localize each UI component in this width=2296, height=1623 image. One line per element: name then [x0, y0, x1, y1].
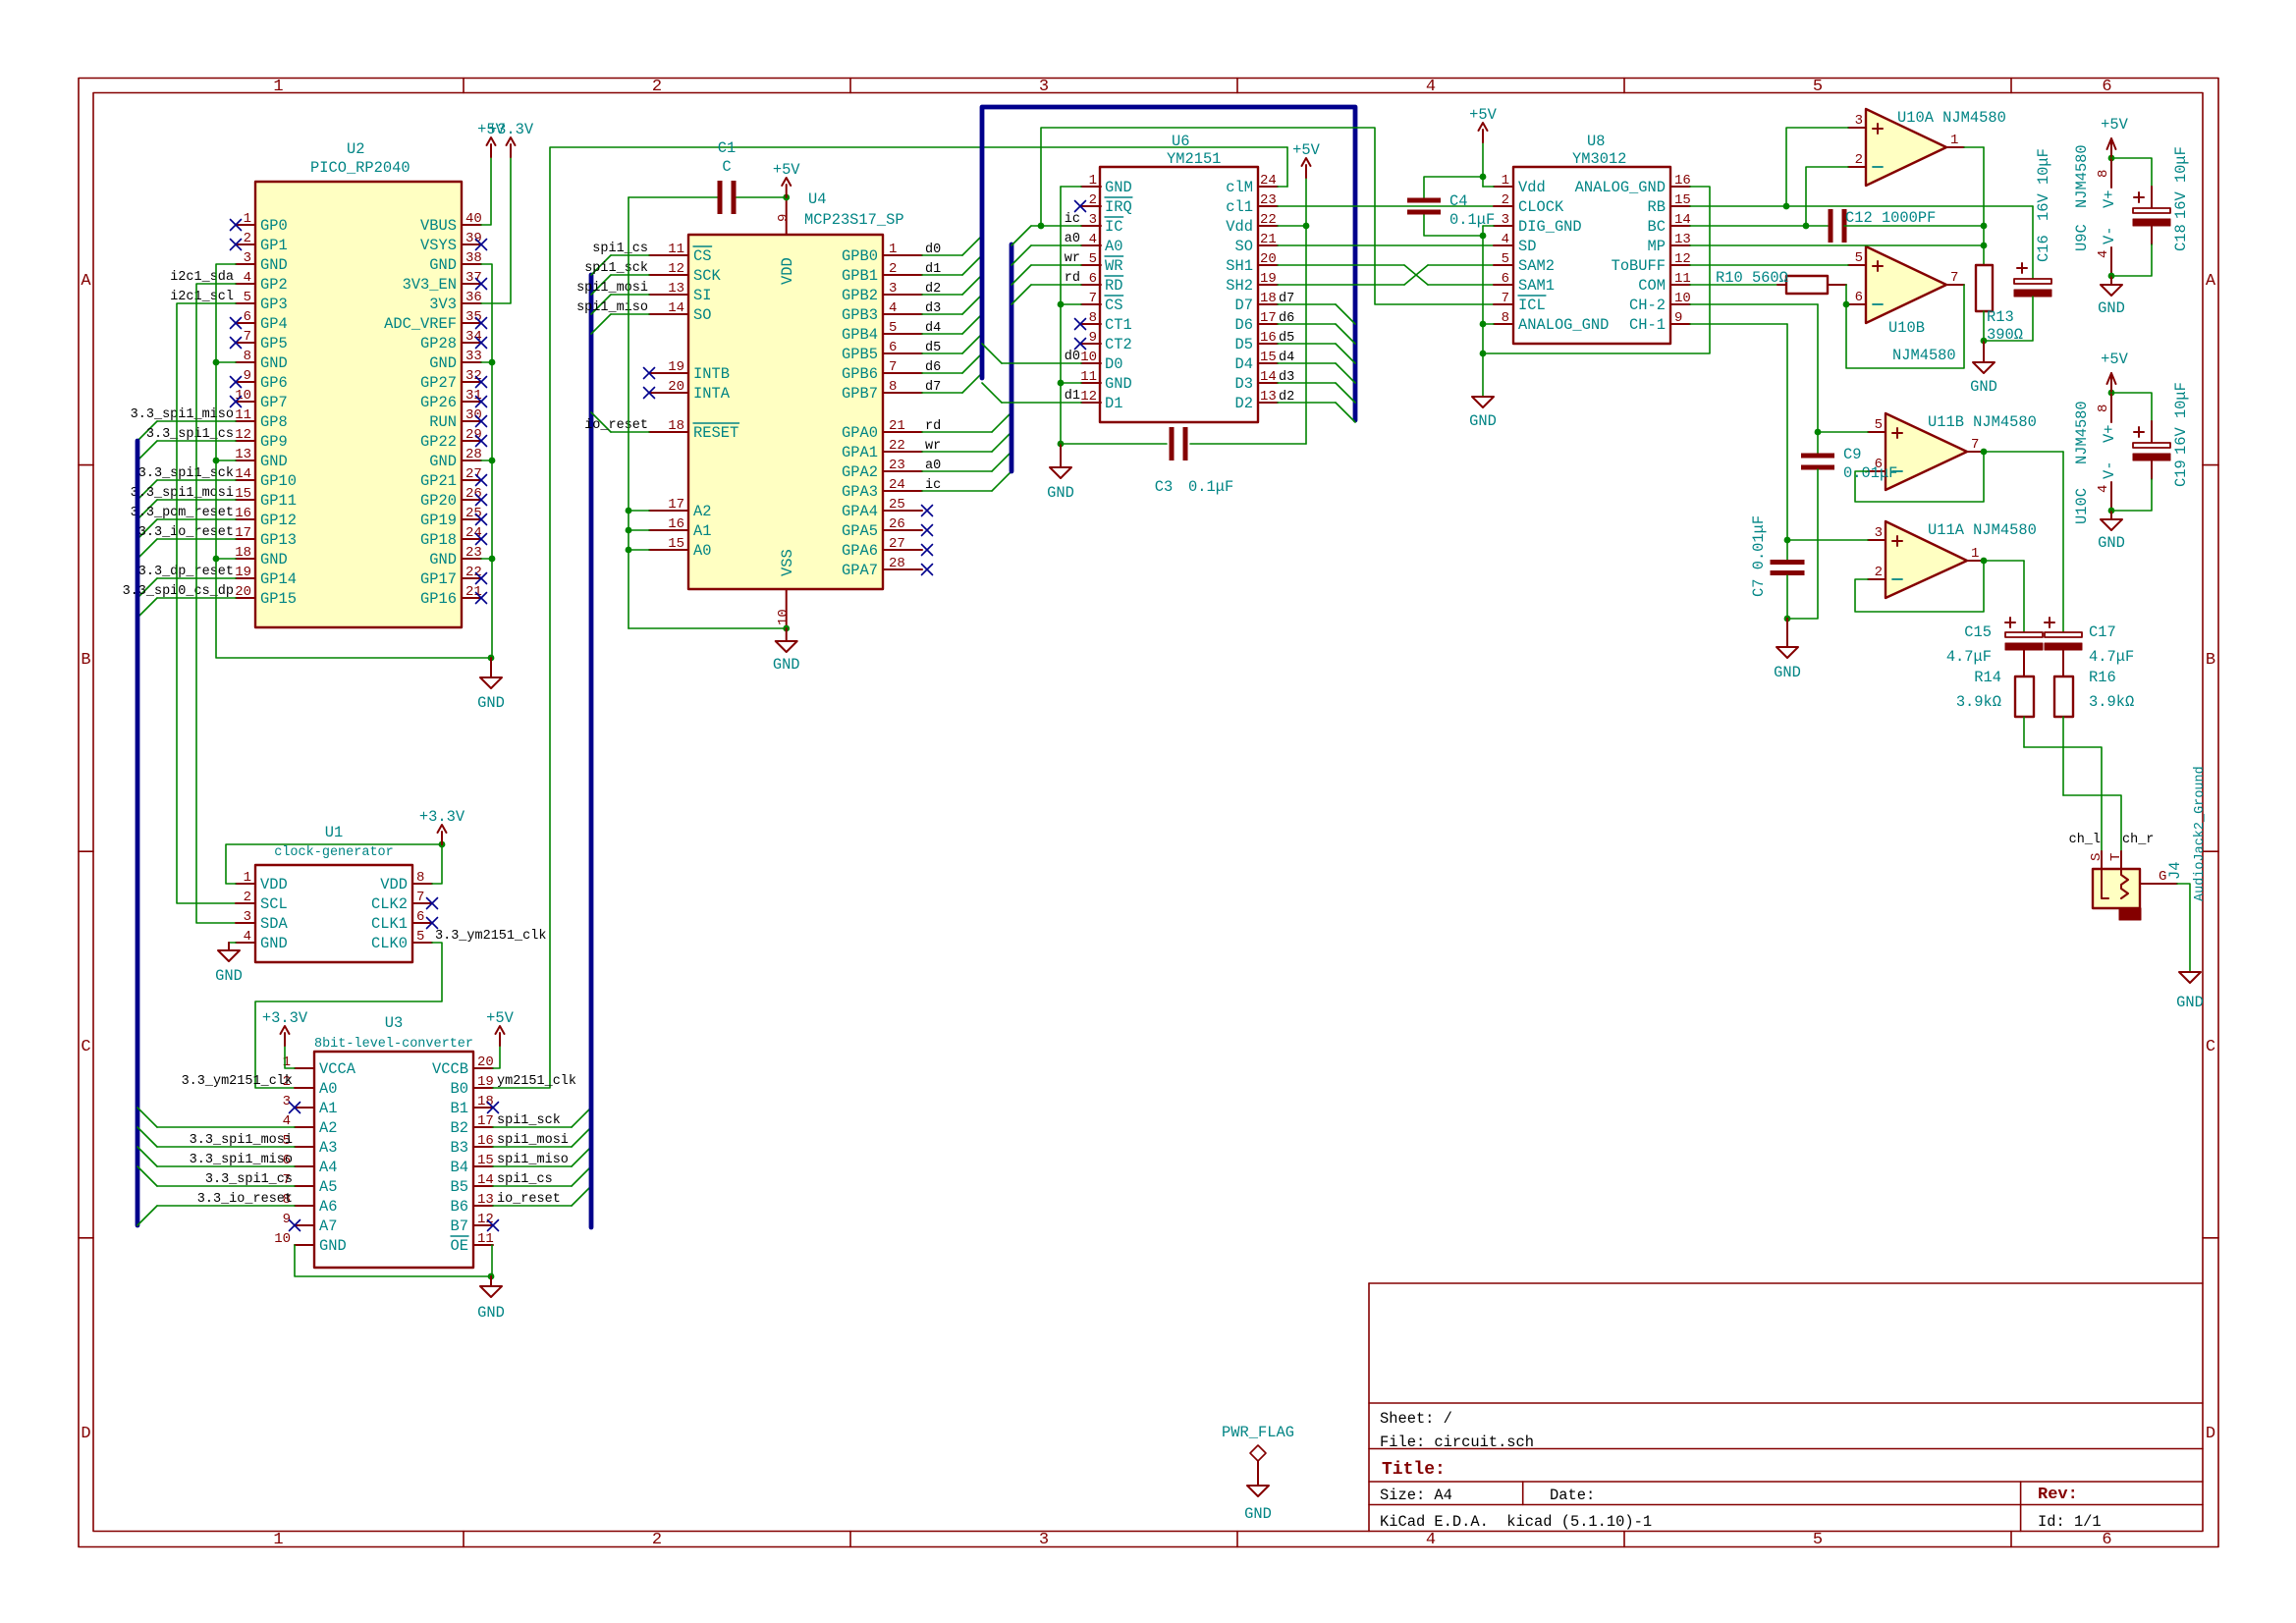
- svg-text:13: 13: [1260, 389, 1277, 405]
- svg-text:10: 10: [235, 388, 251, 404]
- svg-text:B3: B3: [451, 1139, 468, 1157]
- svg-text:NJM4580: NJM4580: [2073, 401, 2091, 464]
- svg-text:1: 1: [1502, 173, 1509, 189]
- svg-text:GP13: GP13: [260, 531, 297, 549]
- svg-text:3: 3: [244, 250, 251, 266]
- svg-text:GPA4: GPA4: [842, 503, 878, 520]
- svg-text:5: 5: [889, 320, 897, 336]
- svg-text:GND: GND: [477, 694, 505, 712]
- svg-text:spi1_sck: spi1_sck: [584, 261, 648, 276]
- svg-text:40: 40: [465, 211, 482, 227]
- svg-text:GND: GND: [2176, 994, 2204, 1011]
- svg-text:+3.3V: +3.3V: [488, 121, 534, 138]
- svg-text:GP17: GP17: [420, 570, 457, 588]
- svg-text:20: 20: [477, 1055, 494, 1070]
- svg-text:15: 15: [668, 536, 684, 552]
- svg-text:Id: 1/1: Id: 1/1: [2038, 1513, 2102, 1531]
- svg-text:GPB4: GPB4: [842, 326, 878, 344]
- svg-text:15: 15: [235, 486, 251, 502]
- svg-text:CS: CS: [693, 247, 711, 265]
- svg-text:B6: B6: [451, 1198, 468, 1216]
- svg-text:spi1_miso: spi1_miso: [576, 300, 648, 315]
- svg-text:2: 2: [244, 231, 251, 246]
- svg-text:D2: D2: [1235, 395, 1253, 412]
- svg-text:B1: B1: [451, 1100, 468, 1117]
- svg-text:18: 18: [235, 545, 251, 561]
- svg-text:11: 11: [1080, 369, 1097, 385]
- svg-text:GP4: GP4: [260, 315, 288, 333]
- svg-text:5: 5: [1855, 250, 1863, 266]
- svg-text:GP20: GP20: [420, 492, 457, 510]
- svg-text:V-: V-: [2101, 461, 2118, 479]
- svg-text:SAM2: SAM2: [1518, 257, 1555, 275]
- svg-text:clM: clM: [1226, 179, 1253, 196]
- svg-text:d0: d0: [1065, 350, 1080, 364]
- svg-text:WR: WR: [1105, 257, 1122, 275]
- svg-text:16: 16: [477, 1133, 494, 1149]
- svg-text:3: 3: [244, 909, 251, 925]
- svg-text:19: 19: [477, 1074, 494, 1090]
- svg-text:23: 23: [889, 458, 905, 473]
- svg-text:A: A: [81, 272, 91, 291]
- svg-text:S: S: [2089, 853, 2105, 861]
- svg-text:GND: GND: [429, 453, 457, 470]
- svg-text:3V3_EN: 3V3_EN: [403, 276, 457, 294]
- svg-text:B2: B2: [451, 1119, 468, 1137]
- svg-text:20: 20: [1260, 251, 1277, 267]
- svg-text:12: 12: [1674, 251, 1691, 267]
- svg-text:2: 2: [1089, 192, 1097, 208]
- svg-text:34: 34: [465, 329, 482, 345]
- svg-text:7: 7: [1950, 270, 1958, 286]
- svg-text:GP26: GP26: [420, 394, 457, 411]
- svg-text:3: 3: [1039, 78, 1049, 96]
- svg-text:C16: C16: [2035, 235, 2052, 262]
- svg-text:GND: GND: [2098, 299, 2125, 317]
- svg-text:GP15: GP15: [260, 590, 297, 608]
- svg-text:A3: A3: [319, 1139, 337, 1157]
- svg-text:GND: GND: [773, 656, 800, 674]
- svg-text:0.1μF: 0.1μF: [1449, 211, 1495, 229]
- svg-text:GP27: GP27: [420, 374, 457, 392]
- svg-text:SO: SO: [693, 306, 711, 324]
- svg-text:CH-2: CH-2: [1629, 297, 1666, 314]
- svg-text:16: 16: [1674, 173, 1691, 189]
- svg-text:GND: GND: [429, 551, 457, 568]
- svg-text:SH2: SH2: [1226, 277, 1253, 295]
- svg-text:8: 8: [2096, 405, 2111, 412]
- svg-text:7: 7: [889, 359, 897, 375]
- svg-text:+5V: +5V: [1469, 106, 1497, 124]
- svg-text:A: A: [2206, 272, 2216, 291]
- svg-text:SAM1: SAM1: [1518, 277, 1555, 295]
- svg-text:7: 7: [1971, 437, 1979, 453]
- svg-text:29: 29: [465, 427, 482, 443]
- svg-text:GND: GND: [260, 551, 288, 568]
- svg-text:GND: GND: [1774, 664, 1801, 681]
- svg-text:U11A NJM4580: U11A NJM4580: [1928, 521, 2037, 539]
- svg-text:3V3: 3V3: [429, 296, 457, 313]
- svg-text:20: 20: [235, 584, 251, 600]
- svg-text:16: 16: [668, 516, 684, 532]
- svg-text:NJM4580: NJM4580: [1892, 347, 1956, 364]
- svg-text:11: 11: [1674, 271, 1691, 287]
- svg-text:GP12: GP12: [260, 512, 297, 529]
- svg-text:15: 15: [477, 1153, 494, 1168]
- svg-text:13: 13: [477, 1192, 494, 1208]
- svg-text:CT2: CT2: [1105, 336, 1132, 353]
- svg-text:22: 22: [889, 438, 905, 454]
- svg-text:clock-generator: clock-generator: [274, 845, 394, 860]
- svg-text:27: 27: [465, 466, 482, 482]
- svg-text:15: 15: [1260, 350, 1277, 365]
- svg-text:+5V: +5V: [1292, 141, 1320, 159]
- svg-text:GP21: GP21: [420, 472, 457, 490]
- svg-text:ANALOG_GND: ANALOG_GND: [1518, 316, 1609, 334]
- svg-text:SO: SO: [1235, 238, 1253, 255]
- svg-text:3.3_io_reset: 3.3_io_reset: [197, 1192, 293, 1207]
- svg-text:GPB7: GPB7: [842, 385, 878, 403]
- svg-text:D1: D1: [1105, 395, 1122, 412]
- svg-text:3.3_spi1_mosi: 3.3_spi1_mosi: [190, 1133, 293, 1148]
- svg-text:U11B NJM4580: U11B NJM4580: [1928, 413, 2037, 431]
- svg-text:13: 13: [235, 447, 251, 462]
- svg-text:3.3_spi1_mosi: 3.3_spi1_mosi: [131, 486, 234, 501]
- svg-text:3: 3: [1855, 113, 1863, 129]
- svg-text:3.9kΩ: 3.9kΩ: [1956, 693, 2001, 711]
- svg-text:spi1_cs: spi1_cs: [592, 242, 648, 256]
- svg-text:ADC_VREF: ADC_VREF: [384, 315, 457, 333]
- svg-text:3.9kΩ: 3.9kΩ: [2089, 693, 2134, 711]
- svg-text:GND: GND: [2098, 534, 2125, 552]
- svg-text:MCP23S17_SP: MCP23S17_SP: [804, 211, 904, 229]
- svg-text:17: 17: [477, 1113, 494, 1129]
- svg-text:12: 12: [235, 427, 251, 443]
- svg-text:1: 1: [244, 211, 251, 227]
- svg-text:C1: C1: [718, 139, 736, 157]
- svg-text:GP22: GP22: [420, 433, 457, 451]
- svg-text:BC: BC: [1648, 218, 1666, 236]
- svg-text:0.01μF: 0.01μF: [1843, 464, 1897, 482]
- svg-text:19: 19: [235, 565, 251, 580]
- svg-text:cl1: cl1: [1226, 198, 1253, 216]
- svg-text:5: 5: [1813, 78, 1823, 96]
- svg-text:COM: COM: [1638, 277, 1666, 295]
- svg-text:37: 37: [465, 270, 482, 286]
- svg-text:33: 33: [465, 349, 482, 364]
- svg-text:D7: D7: [1235, 297, 1253, 314]
- svg-text:7: 7: [1502, 291, 1509, 306]
- svg-text:2: 2: [652, 78, 662, 96]
- svg-text:J4: J4: [2166, 862, 2184, 880]
- svg-text:R14: R14: [1974, 669, 2001, 686]
- svg-text:3: 3: [889, 281, 897, 297]
- svg-text:A0: A0: [693, 542, 711, 560]
- svg-text:B: B: [81, 651, 90, 670]
- svg-text:C9: C9: [1843, 446, 1861, 463]
- svg-text:VDD: VDD: [779, 257, 796, 285]
- svg-text:5: 5: [244, 290, 251, 305]
- svg-text:16: 16: [235, 506, 251, 521]
- svg-text:26: 26: [465, 486, 482, 502]
- svg-text:GND: GND: [1047, 484, 1074, 502]
- svg-text:21: 21: [1260, 232, 1277, 247]
- svg-text:YM3012: YM3012: [1572, 150, 1626, 168]
- svg-text:PICO_RP2040: PICO_RP2040: [310, 159, 410, 177]
- svg-text:6: 6: [1089, 271, 1097, 287]
- svg-text:Title:: Title:: [1382, 1460, 1446, 1480]
- svg-text:GND: GND: [1244, 1505, 1272, 1523]
- svg-text:6: 6: [244, 309, 251, 325]
- svg-text:GPA1: GPA1: [842, 444, 878, 461]
- svg-text:A1: A1: [693, 522, 711, 540]
- svg-text:19: 19: [1260, 271, 1277, 287]
- svg-text:22: 22: [1260, 212, 1277, 228]
- svg-text:CS: CS: [1105, 297, 1122, 314]
- svg-text:11: 11: [668, 242, 684, 257]
- svg-text:GND: GND: [260, 256, 288, 274]
- svg-text:16: 16: [1260, 330, 1277, 346]
- svg-text:C12 1000PF: C12 1000PF: [1845, 209, 1936, 227]
- svg-text:3.3_spi1_cs: 3.3_spi1_cs: [205, 1172, 293, 1187]
- svg-text:A4: A4: [319, 1159, 337, 1176]
- svg-text:Vdd: Vdd: [1226, 218, 1253, 236]
- svg-text:1: 1: [1971, 546, 1979, 562]
- svg-text:2: 2: [1855, 152, 1863, 168]
- svg-text:6: 6: [889, 340, 897, 355]
- svg-text:RB: RB: [1648, 198, 1666, 216]
- svg-text:13: 13: [1674, 232, 1691, 247]
- svg-text:0.1μF: 0.1μF: [1188, 478, 1233, 496]
- svg-text:3: 3: [1089, 212, 1097, 228]
- svg-text:36: 36: [465, 290, 482, 305]
- svg-text:28: 28: [889, 556, 905, 571]
- svg-text:U9C: U9C: [2073, 224, 2091, 251]
- svg-text:14: 14: [1674, 212, 1691, 228]
- svg-text:20: 20: [668, 379, 684, 395]
- svg-text:1: 1: [1950, 133, 1958, 148]
- svg-text:4: 4: [2096, 485, 2111, 493]
- svg-text:GPA2: GPA2: [842, 463, 878, 481]
- svg-text:VCCA: VCCA: [319, 1060, 356, 1078]
- svg-text:+5V: +5V: [2101, 351, 2128, 368]
- svg-text:C17: C17: [2089, 623, 2116, 641]
- svg-text:RESET: RESET: [693, 424, 738, 442]
- svg-text:8: 8: [1089, 310, 1097, 326]
- svg-text:4: 4: [1089, 232, 1097, 247]
- svg-text:RD: RD: [1105, 277, 1122, 295]
- svg-text:10: 10: [1674, 291, 1691, 306]
- svg-text:D3: D3: [1235, 375, 1253, 393]
- svg-text:T: T: [2108, 853, 2124, 861]
- svg-text:C18: C18: [2172, 224, 2190, 251]
- svg-text:3: 3: [1502, 212, 1509, 228]
- svg-text:VDD: VDD: [380, 876, 408, 893]
- svg-text:+3.3V: +3.3V: [262, 1009, 308, 1027]
- svg-text:3.3_dp_reset: 3.3_dp_reset: [138, 565, 234, 579]
- svg-text:3.3_ym2151_clk: 3.3_ym2151_clk: [435, 929, 546, 944]
- svg-text:C15: C15: [1964, 623, 1992, 641]
- svg-text:16V 10μF: 16V 10μF: [2035, 148, 2052, 221]
- svg-text:GP1: GP1: [260, 237, 288, 254]
- svg-text:GPB5: GPB5: [842, 346, 878, 363]
- svg-text:10: 10: [776, 609, 792, 625]
- svg-text:8: 8: [1502, 310, 1509, 326]
- svg-text:3.3_io_reset: 3.3_io_reset: [138, 525, 234, 540]
- svg-text:GPA6: GPA6: [842, 542, 878, 560]
- svg-text:14: 14: [668, 300, 684, 316]
- svg-text:U1: U1: [325, 824, 343, 841]
- svg-text:U10C: U10C: [2073, 488, 2091, 524]
- svg-text:U10A NJM4580: U10A NJM4580: [1897, 109, 2006, 127]
- svg-text:3.3_pcm_reset: 3.3_pcm_reset: [131, 506, 234, 520]
- svg-text:4.7μF: 4.7μF: [2089, 648, 2134, 666]
- svg-text:6: 6: [2102, 1531, 2111, 1549]
- svg-text:+3.3V: +3.3V: [419, 808, 465, 826]
- svg-text:GND: GND: [260, 935, 288, 952]
- svg-text:7: 7: [416, 890, 424, 905]
- svg-text:38: 38: [465, 250, 482, 266]
- svg-text:5: 5: [1502, 251, 1509, 267]
- svg-text:d1: d1: [1065, 389, 1080, 404]
- svg-text:C: C: [722, 158, 731, 176]
- svg-text:GP9: GP9: [260, 433, 288, 451]
- svg-text:2: 2: [1875, 565, 1883, 580]
- svg-text:C: C: [81, 1038, 90, 1056]
- svg-text:spi1_mosi: spi1_mosi: [576, 281, 648, 296]
- svg-text:ym2151_clk: ym2151_clk: [497, 1074, 576, 1089]
- svg-text:2: 2: [1502, 192, 1509, 208]
- svg-text:12: 12: [1080, 389, 1097, 405]
- svg-text:CLK0: CLK0: [371, 935, 408, 952]
- svg-text:A0: A0: [1105, 238, 1122, 255]
- svg-text:A5: A5: [319, 1178, 337, 1196]
- svg-text:5: 5: [416, 929, 424, 945]
- svg-text:B: B: [2206, 651, 2215, 670]
- svg-text:8: 8: [889, 379, 897, 395]
- svg-text:A7: A7: [319, 1217, 337, 1235]
- svg-text:RUN: RUN: [429, 413, 457, 431]
- svg-text:SD: SD: [1518, 238, 1536, 255]
- svg-text:D6: D6: [1235, 316, 1253, 334]
- svg-text:A2: A2: [319, 1119, 337, 1137]
- svg-text:1: 1: [244, 870, 251, 886]
- svg-text:11: 11: [477, 1231, 494, 1247]
- svg-text:5: 5: [1089, 251, 1097, 267]
- svg-text:24: 24: [1260, 173, 1277, 189]
- svg-text:ICL: ICL: [1518, 297, 1546, 314]
- svg-text:GND: GND: [477, 1304, 505, 1322]
- svg-text:31: 31: [465, 388, 482, 404]
- svg-text:GND: GND: [260, 453, 288, 470]
- svg-text:4: 4: [244, 929, 251, 945]
- svg-text:IC: IC: [1105, 218, 1122, 236]
- svg-text:rd: rd: [1065, 271, 1080, 286]
- svg-text:3.3_spi1_sck: 3.3_spi1_sck: [138, 466, 234, 481]
- svg-text:B5: B5: [451, 1178, 468, 1196]
- svg-text:4: 4: [244, 270, 251, 286]
- svg-text:GP14: GP14: [260, 570, 297, 588]
- svg-text:GPA3: GPA3: [842, 483, 878, 501]
- svg-text:i2c1_scl: i2c1_scl: [170, 290, 234, 304]
- svg-text:2: 2: [889, 261, 897, 277]
- svg-text:io_reset: io_reset: [584, 418, 648, 433]
- svg-text:io_reset: io_reset: [497, 1192, 561, 1207]
- svg-text:Date:: Date:: [1550, 1487, 1595, 1504]
- svg-text:VDD: VDD: [260, 876, 288, 893]
- svg-text:39: 39: [465, 231, 482, 246]
- svg-text:19: 19: [668, 359, 684, 375]
- svg-text:GND: GND: [1105, 179, 1132, 196]
- svg-text:V+: V+: [2101, 425, 2118, 443]
- svg-text:U6: U6: [1172, 133, 1189, 150]
- svg-text:GP16: GP16: [420, 590, 457, 608]
- svg-text:GP8: GP8: [260, 413, 288, 431]
- svg-text:D0: D0: [1105, 355, 1122, 373]
- svg-text:18: 18: [477, 1094, 494, 1109]
- svg-text:23: 23: [465, 545, 482, 561]
- svg-text:GPB0: GPB0: [842, 247, 878, 265]
- svg-text:U4: U4: [808, 190, 826, 208]
- svg-text:GPB2: GPB2: [842, 287, 878, 304]
- svg-text:OE: OE: [451, 1237, 468, 1255]
- svg-text:24: 24: [889, 477, 905, 493]
- svg-text:Vdd: Vdd: [1518, 179, 1546, 196]
- svg-text:1: 1: [273, 1531, 283, 1549]
- svg-text:GND: GND: [260, 354, 288, 372]
- svg-text:CT1: CT1: [1105, 316, 1132, 334]
- svg-text:SCK: SCK: [693, 267, 721, 285]
- svg-text:i2c1_sda: i2c1_sda: [170, 270, 234, 285]
- svg-text:ch_r: ch_r: [2122, 833, 2154, 847]
- svg-text:GP18: GP18: [420, 531, 457, 549]
- svg-text:GND: GND: [429, 256, 457, 274]
- svg-text:D: D: [2206, 1425, 2215, 1443]
- svg-text:GP6: GP6: [260, 374, 288, 392]
- svg-text:+5V: +5V: [773, 161, 800, 179]
- svg-text:GPB6: GPB6: [842, 365, 878, 383]
- svg-text:YM2151: YM2151: [1167, 150, 1221, 168]
- svg-text:GP7: GP7: [260, 394, 288, 411]
- svg-text:7: 7: [244, 329, 251, 345]
- svg-text:18: 18: [1260, 291, 1277, 306]
- svg-text:A6: A6: [319, 1198, 337, 1216]
- svg-text:12: 12: [668, 261, 684, 277]
- svg-text:A1: A1: [319, 1100, 337, 1117]
- svg-text:VBUS: VBUS: [420, 217, 457, 235]
- svg-text:9: 9: [244, 368, 251, 384]
- svg-text:U2: U2: [347, 140, 364, 158]
- svg-text:AudioJack2_Ground: AudioJack2_Ground: [2193, 766, 2208, 901]
- svg-text:8: 8: [244, 349, 251, 364]
- svg-text:9: 9: [1674, 310, 1682, 326]
- svg-text:3.3_spi1_miso: 3.3_spi1_miso: [190, 1153, 293, 1167]
- svg-text:GP10: GP10: [260, 472, 297, 490]
- svg-text:SH1: SH1: [1226, 257, 1253, 275]
- svg-text:4: 4: [2096, 250, 2111, 258]
- svg-text:25: 25: [889, 497, 905, 513]
- svg-text:Rev:: Rev:: [2038, 1486, 2078, 1504]
- svg-text:5: 5: [1813, 1531, 1823, 1549]
- svg-text:8bit-level-converter: 8bit-level-converter: [314, 1037, 473, 1052]
- svg-text:4.7μF: 4.7μF: [1946, 648, 1992, 666]
- svg-text:ANALOG_GND: ANALOG_GND: [1575, 179, 1666, 196]
- svg-text:spi1_miso: spi1_miso: [497, 1153, 569, 1167]
- svg-text:B4: B4: [451, 1159, 468, 1176]
- svg-text:MP: MP: [1648, 238, 1666, 255]
- svg-text:GND: GND: [1469, 412, 1497, 430]
- svg-text:C3: C3: [1155, 478, 1173, 496]
